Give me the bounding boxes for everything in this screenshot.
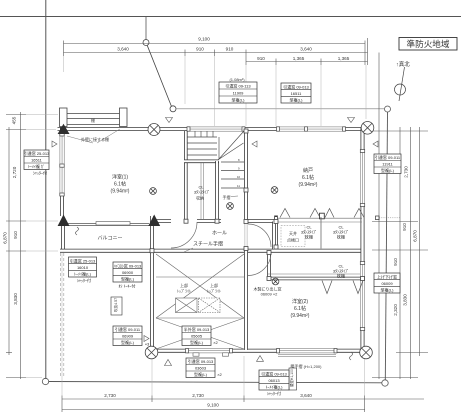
svg-text:ﾄｯﾌﾟﾗｲﾄ: ﾄｯﾌﾟﾗｲﾄ	[177, 288, 191, 294]
bifold bump 4	[354, 209, 364, 218]
svg-text:11: 11	[237, 184, 240, 188]
spec box C right upper	[374, 154, 401, 174]
right exterior wall	[361, 127, 365, 353]
svg-text:6.1帖: 6.1帖	[114, 181, 126, 188]
svg-text:納戸: 納戸	[303, 167, 313, 174]
svg-text:06009 ×2: 06009 ×2	[261, 292, 279, 297]
bottom extension lines	[61, 253, 63, 396]
window bottom wall left	[186, 348, 233, 356]
stair left-run treads	[188, 142, 218, 144]
bifold bump 1	[280, 209, 290, 218]
marker bottom wall a	[165, 360, 172, 366]
svg-text:吹抜4.57: 吹抜4.57	[113, 298, 118, 312]
bay window note leaders	[67, 136, 93, 143]
stair winder diagonal b	[219, 143, 244, 160]
void area rotated box	[111, 297, 122, 315]
right ticks	[372, 130, 428, 132]
skylight box right	[199, 298, 221, 313]
leader diagonal to wall circle	[147, 45, 171, 106]
dim ticks row2	[63, 41, 65, 57]
svg-text:引違窓 09-013: 引違窓 09-013	[188, 358, 214, 364]
svg-text:06009: 06009	[381, 281, 393, 286]
corner triangle top-left	[58, 124, 70, 134]
svg-text:16511: 16511	[291, 91, 303, 96]
svg-text:×3: ×3	[145, 342, 150, 347]
skylight box left	[176, 298, 198, 313]
svg-text:16511: 16511	[31, 158, 43, 163]
extension line x185	[184, 56, 186, 104]
spec box G balcony right	[113, 262, 142, 289]
svg-text:ｼｬｯﾀｰ付: ｼｬｯﾀｰ付	[33, 170, 47, 176]
closet front line	[278, 217, 362, 219]
svg-text:×2: ×2	[217, 372, 222, 377]
svg-text:引違窓 09-011: 引違窓 09-011	[375, 154, 401, 160]
pillar circle top-right	[361, 122, 374, 135]
svg-text:引違窓 25-013: 引違窓 25-013	[24, 150, 50, 156]
bay window right post	[120, 108, 128, 127]
svg-text:2,320: 2,320	[393, 304, 398, 316]
marker down top wall left	[166, 118, 173, 123]
bifold bump 2	[310, 209, 320, 218]
lower floor wall dashes	[60, 253, 62, 376]
jamb post squares	[150, 129, 365, 281]
svg-text:(1.08m²): (1.08m²)	[229, 77, 245, 82]
marker down top wall right	[348, 118, 355, 123]
symbol storage	[271, 187, 278, 194]
svg-text:(9.94m²): (9.94m²)	[299, 182, 318, 188]
svg-text:天井: 天井	[289, 230, 297, 236]
left dim line inner	[20, 112, 22, 379]
extension line x63.5	[63, 56, 65, 72]
svg-text:910: 910	[257, 56, 265, 61]
bifold bump 3	[325, 209, 334, 218]
grid circle K1	[143, 40, 149, 46]
storage alcove wall	[246, 219, 274, 223]
inner left wall	[150, 216, 154, 352]
room2 door wall stub	[272, 222, 276, 250]
svg-text:引違窓 09-113: 引違窓 09-113	[225, 83, 251, 89]
balcony hatch rect	[96, 222, 130, 225]
stair tread numbers	[237, 158, 241, 188]
svg-text:2,730: 2,730	[192, 393, 204, 398]
right dim line c	[410, 127, 412, 379]
svg-text:上部: 上部	[180, 282, 188, 288]
svg-text:06013: 06013	[268, 378, 280, 383]
extension line x246	[245, 65, 247, 126]
svg-text:ｼｬｯﾀｰ付: ｼｬｯﾀｰ付	[267, 390, 281, 396]
stair right-run treads	[221, 161, 244, 163]
closet divider wall	[274, 216, 278, 250]
marker left storage	[252, 141, 257, 147]
bifold bump down 2	[353, 281, 363, 294]
wall circle top	[148, 124, 160, 136]
true north circle	[395, 84, 406, 95]
dim line 9100	[64, 43, 366, 45]
spec box F balcony left	[69, 257, 97, 283]
marker left near left window	[52, 141, 57, 147]
void diagonal a	[156, 254, 244, 318]
left dim line outer	[8, 127, 10, 355]
top exterior wall	[58, 127, 365, 131]
svg-text:腰壁H1,100: 腰壁H1,100	[289, 369, 294, 387]
svg-text:収納: 収納	[196, 195, 204, 201]
south wall with handrail	[60, 249, 363, 253]
sheet left border line	[45, 0, 47, 379]
svg-text:手摺: 手摺	[223, 194, 231, 200]
bay window lines	[67, 113, 120, 115]
svg-text:2,730: 2,730	[404, 166, 409, 178]
rotated note box bottom right	[289, 368, 297, 390]
svg-text:910: 910	[226, 47, 234, 52]
svg-text:枕棚: 枕棚	[305, 234, 313, 240]
svg-text:11909: 11909	[233, 91, 245, 96]
svg-text:(9.94m²): (9.94m²)	[291, 313, 310, 319]
svg-text:上げ下げ窓: 上げ下げ窓	[377, 273, 397, 279]
svg-text:ﾄｯﾌﾟﾗｲﾄ: ﾄｯﾌﾟﾗｲﾄ	[207, 288, 221, 294]
svg-text:スチール手摺: スチール手摺	[193, 241, 223, 248]
symbol room1	[150, 188, 157, 195]
svg-text:外壁に接する棚: 外壁に接する棚	[81, 136, 109, 142]
svg-text:ﾊﾒｺﾛｼ窓 09-013: ﾊﾒｺﾛｼ窓 09-013	[114, 262, 142, 268]
stair closet door split	[200, 163, 202, 219]
void lower diagonal b	[156, 318, 244, 349]
svg-text:ｼｬｯﾀｰ付: ｼｬｯﾀｰ付	[77, 277, 91, 283]
closet bifold door bumps	[280, 209, 364, 294]
spec box I left of void	[113, 326, 150, 347]
svg-text:枕棚: 枕棚	[337, 234, 345, 240]
spec box B top right	[281, 83, 311, 103]
svg-text:枕棚: 枕棚	[337, 273, 345, 279]
svg-text:1,365: 1,365	[293, 56, 305, 61]
tiny note right wall	[376, 216, 380, 220]
symbol room2 window	[272, 278, 279, 285]
svg-text:型複(L): 型複(L)	[121, 339, 135, 345]
left extension lines	[26, 114, 58, 116]
bottom ticks	[61, 396, 63, 413]
svg-text:3,640: 3,640	[300, 47, 312, 52]
svg-text:2,720: 2,720	[12, 166, 17, 178]
site boundary bottom line	[49, 382, 383, 383]
bottom exterior wall	[150, 349, 365, 353]
svg-text:上部: 上部	[210, 282, 218, 288]
stairwell left wall	[184, 131, 188, 221]
marker near box I	[144, 336, 149, 342]
svg-text:3,830: 3,830	[403, 294, 408, 306]
marker right wall	[373, 141, 378, 147]
spec box E left	[24, 150, 50, 176]
closet1 shelf line	[277, 221, 362, 223]
stair closet right wall	[215, 161, 219, 221]
svg-text:ﾄｰﾒｲ複 ｶﾞ: ﾄｰﾒｲ複 ｶﾞ	[28, 163, 45, 169]
right dim line d	[419, 127, 421, 356]
grid line to circle K1	[145, 17, 147, 40]
svg-text:型複(L): 型複(L)	[194, 371, 208, 377]
extension line x214.5	[214, 56, 216, 126]
svg-text:引違窓 25-013: 引違窓 25-013	[70, 257, 96, 263]
void lower diagonal a	[156, 318, 244, 349]
balcony drain hook	[76, 227, 79, 235]
svg-text:3,640: 3,640	[300, 393, 312, 398]
svg-text:910: 910	[393, 258, 398, 266]
svg-text:洋室(1): 洋室(1)	[112, 174, 128, 181]
svg-text:ｵｼ ﾄｰｷｰ付: ｵｼ ﾄｰｷｰ付	[118, 283, 135, 289]
svg-text:バルコニー: バルコニー	[98, 236, 123, 242]
void mid line	[156, 276, 244, 278]
site boundary right line	[385, 112, 387, 380]
svg-text:910: 910	[402, 223, 407, 231]
svg-text:910: 910	[13, 231, 18, 239]
svg-text:06909: 06909	[122, 334, 134, 339]
left ticks	[6, 114, 26, 116]
pillar circle bottom-left	[145, 346, 158, 359]
svg-text:洋室(2): 洋室(2)	[292, 298, 308, 305]
left exterior wall	[60, 127, 64, 216]
svg-text:点検口: 点検口	[287, 237, 299, 243]
stair top-run treads	[194, 131, 196, 137]
boundary corner circle left	[42, 378, 48, 384]
window bottom wall right	[277, 348, 353, 360]
eaves line y109	[176, 108, 385, 110]
svg-text:型複(L): 型複(L)	[121, 276, 135, 282]
window top wall over stairs	[187, 127, 245, 132]
pillar circle bottom-right	[360, 346, 373, 359]
svg-text:1,365: 1,365	[338, 56, 350, 61]
svg-text:6.1帖: 6.1帖	[294, 305, 306, 312]
window right wall upper	[360, 150, 365, 207]
sheet top border line	[0, 16, 461, 18]
stair line y137	[188, 136, 218, 138]
spec box H void center	[182, 326, 219, 346]
svg-text:ホール: ホール	[212, 231, 227, 237]
bottom dim line 2	[62, 409, 365, 411]
svg-text:16010: 16010	[77, 265, 89, 270]
stair winder diagonal a	[219, 132, 244, 160]
hall top wall left piece	[152, 219, 171, 223]
balcony rail line	[66, 223, 149, 225]
dim line row2	[64, 52, 368, 54]
svg-text:半外窓 09-013: 半外窓 09-013	[184, 326, 210, 332]
svg-text:(9.94m²): (9.94m²)	[111, 189, 130, 195]
extension line x321	[320, 65, 322, 126]
svg-text:06900: 06900	[122, 270, 134, 275]
handrail leader	[184, 248, 193, 252]
window top wall of storage room	[277, 127, 346, 132]
svg-text:3,640: 3,640	[117, 47, 129, 52]
extension line x276	[275, 65, 277, 126]
svg-text:型複(L): 型複(L)	[290, 97, 304, 103]
bifold bump down 1	[322, 281, 332, 294]
closet2 bottom wall	[268, 277, 363, 281]
closet2 shelf line	[268, 273, 362, 275]
svg-text:3ﾀﾝｽﾀｲﾌﾟ: 3ﾀﾝｽﾀｲﾌﾟ	[194, 189, 210, 195]
svg-text:910: 910	[196, 47, 204, 52]
marker bottom wall b	[257, 356, 264, 362]
svg-text:引違窓 09-013: 引違窓 09-013	[283, 83, 309, 89]
svg-text:×2: ×2	[213, 340, 218, 345]
spec box D right lower	[374, 273, 400, 293]
door arc room2	[248, 224, 271, 247]
dim ticks row3	[275, 59, 277, 66]
stair mid wall	[184, 160, 219, 164]
svg-text:6.1帖: 6.1帖	[302, 174, 314, 181]
window right wall lower	[360, 262, 365, 331]
boundary corner circle right	[382, 380, 388, 386]
closet front post	[320, 213, 325, 219]
center wall upper	[244, 129, 248, 222]
spec box J bottom center	[186, 358, 223, 378]
svg-text:2,730: 2,730	[104, 393, 116, 398]
svg-text:ﾄｰﾒｲ複(L): ﾄｰﾒｲ複(L)	[266, 384, 284, 390]
svg-text:11911: 11911	[382, 162, 393, 167]
svg-text:6,870: 6,870	[3, 232, 8, 244]
closet thin divider	[320, 217, 322, 249]
corner triangle balcony-left	[58, 215, 70, 227]
extension line x366	[365, 65, 367, 119]
spec box A top center	[219, 82, 257, 103]
right dim line a	[378, 53, 380, 380]
svg-text:10: 10	[237, 175, 241, 179]
door arc room1	[171, 222, 197, 248]
svg-text:引違窓 09-013: 引違窓 09-013	[261, 370, 287, 376]
svg-text:型複(L): 型複(L)	[190, 339, 204, 345]
bottom dim line 1	[62, 398, 424, 400]
svg-text:型複(L): 型複(L)	[232, 97, 246, 103]
balcony left wall	[61, 226, 65, 252]
void line y318	[156, 317, 244, 319]
svg-text:6,870: 6,870	[413, 230, 418, 242]
true north leader line	[399, 67, 405, 101]
corner triangle hall	[148, 215, 160, 227]
hall top wall right piece	[197, 219, 221, 223]
svg-text:↑真北: ↑真北	[396, 60, 410, 68]
right dim line b	[399, 127, 401, 379]
door arc room2 lower	[248, 253, 271, 276]
svg-text:引違窓 09-011: 引違窓 09-011	[115, 326, 141, 332]
svg-text:05605: 05605	[191, 334, 203, 339]
void diagonal b	[156, 254, 244, 318]
doorway jamb lines center wall	[244, 223, 246, 247]
svg-text:型複(L): 型複(L)	[381, 167, 395, 173]
bay window left post	[60, 108, 68, 127]
svg-text:9,100: 9,100	[207, 403, 219, 408]
svg-text:455: 455	[12, 116, 17, 124]
svg-text:準防火地域: 準防火地域	[407, 38, 450, 49]
quasi fire-prevention district box	[399, 38, 457, 51]
stair right-run boundary	[218, 137, 220, 159]
center wall lower	[244, 247, 248, 350]
dim line row3	[246, 61, 368, 63]
boundary top circle right	[385, 106, 391, 112]
svg-text:9,100: 9,100	[198, 37, 210, 42]
svg-text:ﾄｰﾒｲ複(L): ﾄｰﾒｲ複(L)	[74, 271, 92, 277]
svg-text:型複(L): 型複(L)	[381, 287, 395, 293]
ceiling access label	[281, 226, 305, 247]
closet2 left wall	[267, 253, 271, 279]
wall reference circle	[170, 106, 176, 112]
svg-text:棚: 棚	[91, 117, 95, 123]
spec box K bottom right	[259, 370, 289, 396]
window left wall	[60, 133, 65, 196]
svg-text:03603: 03603	[195, 366, 207, 371]
svg-text:3,830: 3,830	[13, 293, 18, 305]
symbol stair handrail	[227, 203, 234, 210]
